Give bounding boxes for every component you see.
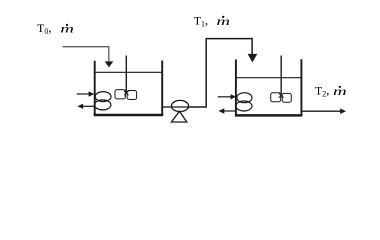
heating coil tank 2: [236, 93, 252, 111]
tank 2 bottom: [235, 114, 303, 117]
arrowhead into tank 2: [248, 54, 258, 63]
pump through line: [172, 106, 189, 108]
svg-text:T0,: T0,: [37, 21, 51, 36]
coil outlet arrow tank 2: [223, 110, 236, 112]
svg-text:T1,: T1,: [194, 14, 208, 29]
tank 1 liquid level line: [95, 71, 163, 73]
coil outlet arrow tank 1: [82, 105, 95, 107]
feed arrowhead into tank 1: [105, 61, 114, 67]
impeller paddles tank 1: [115, 90, 137, 100]
coil inlet arrow tank 1: [77, 93, 90, 95]
svg-text:T2,: T2,: [315, 84, 329, 99]
feed pipe into tank 1: [63, 47, 109, 62]
tank 2 liquid level line: [236, 77, 302, 79]
pump base triangle: [171, 111, 186, 122]
label T0, mdot: [37, 21, 74, 36]
tank 1 left wall: [94, 61, 96, 116]
discharge pipe pump to tank 2: [189, 39, 253, 107]
tank 2 left wall: [235, 60, 237, 116]
label T2, mdot: [315, 84, 347, 99]
agitator shaft tank 1: [125, 56, 127, 93]
outlet pipe tank 1 to pump: [162, 106, 171, 108]
agitator shaft tank 2: [280, 56, 282, 95]
heating coil tank 1: [95, 92, 112, 110]
coil inlet arrow tank 2: [218, 96, 232, 98]
outlet pipe tank 2 with arrow: [301, 110, 341, 112]
tank 1 bottom: [94, 114, 164, 117]
label T1, mdot: [194, 14, 230, 29]
pump body: [171, 100, 188, 111]
tank 2 right wall: [300, 59, 302, 115]
tank 1 right wall: [161, 61, 163, 116]
impeller paddles tank 2: [271, 93, 292, 102]
